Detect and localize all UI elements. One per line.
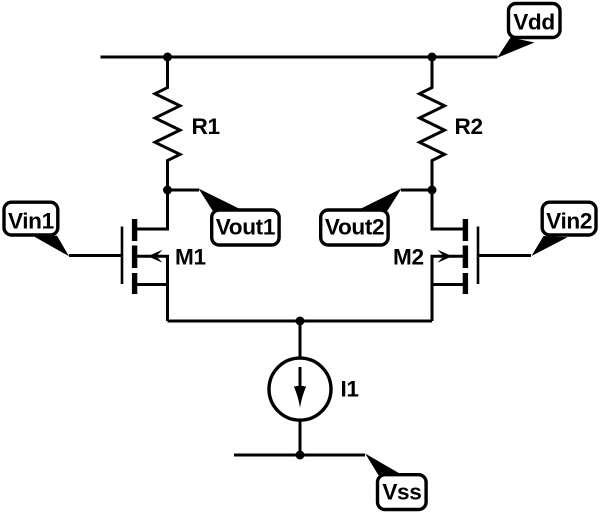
node: M2 drain junction [428,186,437,195]
resistor R1 [155,57,180,190]
svg-text:M1: M1 [175,245,206,270]
wire: tail node to current source [299,321,302,358]
net label Vin2: box [542,202,596,235]
net label Vout2: pointer wedge [359,189,402,211]
svg-text:Vout2: Vout2 [325,215,384,240]
wire: common source rail [168,320,433,323]
transistor M2 [432,190,478,321]
power label Vdd: box [509,4,561,38]
net label Vin2: pointer wedge [532,236,568,256]
wire: Vss bottom rail [234,454,365,457]
net label Vout1: box [212,210,279,245]
net label Vout2: box [321,210,388,245]
wire: Vin1 to M1 gate [69,254,121,257]
svg-text:Vin2: Vin2 [546,209,592,234]
svg-text:R1: R1 [192,114,220,139]
resistor R2 [420,57,445,190]
power label Vss: pointer wedge [365,454,400,475]
wire: Vin2 to M2 gate [479,254,531,257]
svg-text:I1: I1 [341,377,359,402]
net label Vin1: box [4,202,58,235]
svg-text:M2: M2 [393,245,424,270]
power label Vss: box [378,475,427,510]
node: tail junction [296,317,305,326]
svg-text:Vout1: Vout1 [216,215,275,240]
net label Vout1: pointer wedge [199,189,242,211]
wire: drain node to Vout1 pointer [168,189,200,192]
wire: Vdd top rail [101,56,498,59]
node: Vss junction [296,451,305,460]
current source I1 [269,358,331,420]
node: R2 top junction [428,53,437,62]
transistor M1 [122,190,168,321]
svg-text:Vss: Vss [382,480,421,505]
node: M1 drain junction [163,186,172,195]
node: R1 top junction [163,53,172,62]
wire: current source to Vss rail [299,421,302,456]
svg-text:Vin1: Vin1 [8,209,54,234]
svg-text:R2: R2 [455,114,483,139]
power label Vdd: pointer wedge [497,38,534,58]
svg-text:Vdd: Vdd [513,10,555,35]
net label Vin1: pointer wedge [31,235,70,257]
wire: drain node to Vout2 pointer [401,189,432,192]
